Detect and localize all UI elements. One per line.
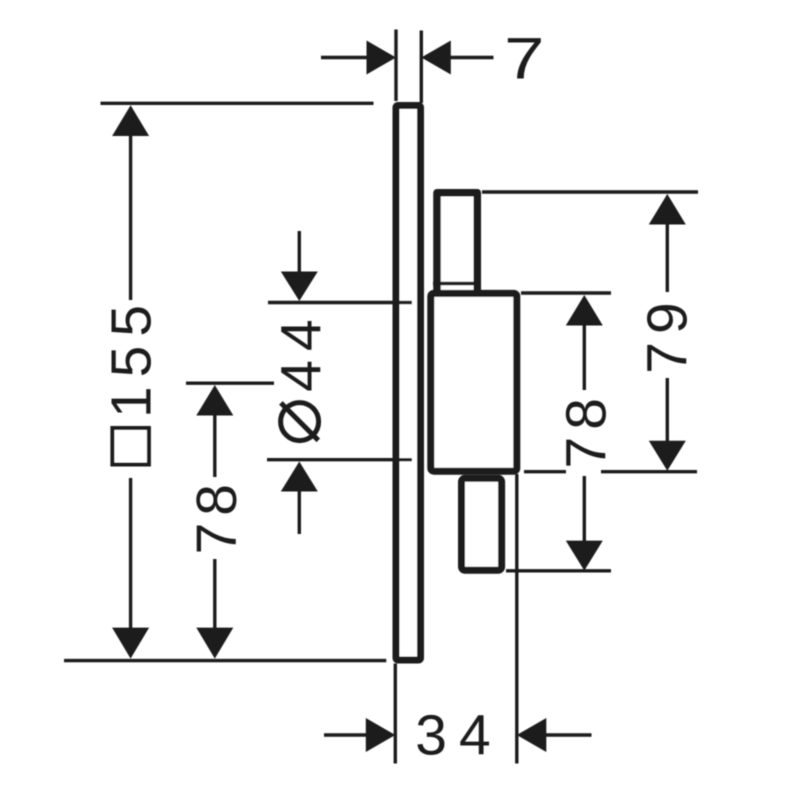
valve body block [431,293,517,471]
dim 155: bottom extension line [64,659,386,662]
svg-text:34: 34 [415,704,502,768]
dim 78 left: value label (rotated) [185,477,249,554]
upper handle bottom separation line [433,282,478,285]
dim 79: top extension line [482,190,698,193]
dim 79: bottom extension line left part [524,470,566,473]
dim 79: lower line segment [666,378,669,444]
svg-text:155: 155 [100,296,164,418]
dim 34: value label [415,704,502,768]
dim 78 right: top arrow (points up) [566,295,603,326]
dim 34: left leader line [324,733,367,736]
dim 44: lower leader line [298,490,301,535]
dim 34: right leader line [546,733,592,736]
dim 155: top arrow (points up) [112,105,149,136]
dim 34: left extension line [394,664,397,764]
dim 78 left: lower line segment [213,559,216,629]
dim 44: top arrow (points down) [281,272,318,302]
dim 7: value label [504,26,544,90]
svg-text:78: 78 [185,477,249,554]
dim 34: left arrow (points right) [366,718,396,752]
svg-text:44: 44 [269,310,333,391]
dim 34: right arrow (points left) [517,718,547,752]
upper handle block [437,193,477,297]
dim 7: right arrow (points left) [421,41,451,75]
dim 78 right: upper line segment [583,324,586,391]
dim 44: bottom arrow (points up) [281,462,318,492]
dim 44: upper leader line [298,231,301,274]
svg-text:79: 79 [636,294,700,373]
dim 34: right extension line [515,474,518,764]
dim 155: bottom arrow (points down) [112,628,149,659]
dim 44: top extension line [268,301,412,304]
dim 7: left leader line [321,56,368,59]
dim 155: value label (rotated) [100,296,164,418]
dim 78 left: bottom arrow (points down) [196,628,233,659]
dim 7: left arrow (points right) [367,41,397,75]
lower handle block [462,478,502,570]
dim 78 right: bottom extension line [506,569,611,572]
dim 155: upper line segment [129,134,132,300]
dim 155: square symbol of label [112,428,148,465]
dim 78 right: bottom arrow (points down) [566,541,603,571]
dim 79: bottom extension line right part [601,470,697,473]
dim 155: top extension line [101,102,374,105]
dim 79: value label (rotated) [636,294,700,373]
dim 78 right: top extension line [521,291,611,294]
dim 78 left: upper line segment [213,414,216,478]
dim 44: value digits (rotated) [269,310,333,391]
dim 79: top arrow (points up) [649,194,686,225]
dim 78 left: top arrow (points up) [196,385,233,416]
svg-text:7: 7 [504,26,544,90]
dim 78 left: top extension line [186,382,274,385]
dim 44: value label (rotated) [281,403,319,441]
dim 7: left extension line [394,30,397,102]
dim 79: upper line segment [666,223,669,293]
dim 44: bottom extension line [267,458,412,461]
dim 78 right: lower line segment [583,476,586,542]
dim 155: lower line segment [129,478,132,629]
dim 7: right leader line [450,56,494,59]
dim 78 right: value label (rotated) [555,391,619,468]
wall plate (side view, tall thin rectangle) [396,106,421,661]
dim 79: bottom arrow (points down) [649,441,686,471]
dim 7: right extension line [420,31,423,104]
svg-text:78: 78 [555,391,619,468]
